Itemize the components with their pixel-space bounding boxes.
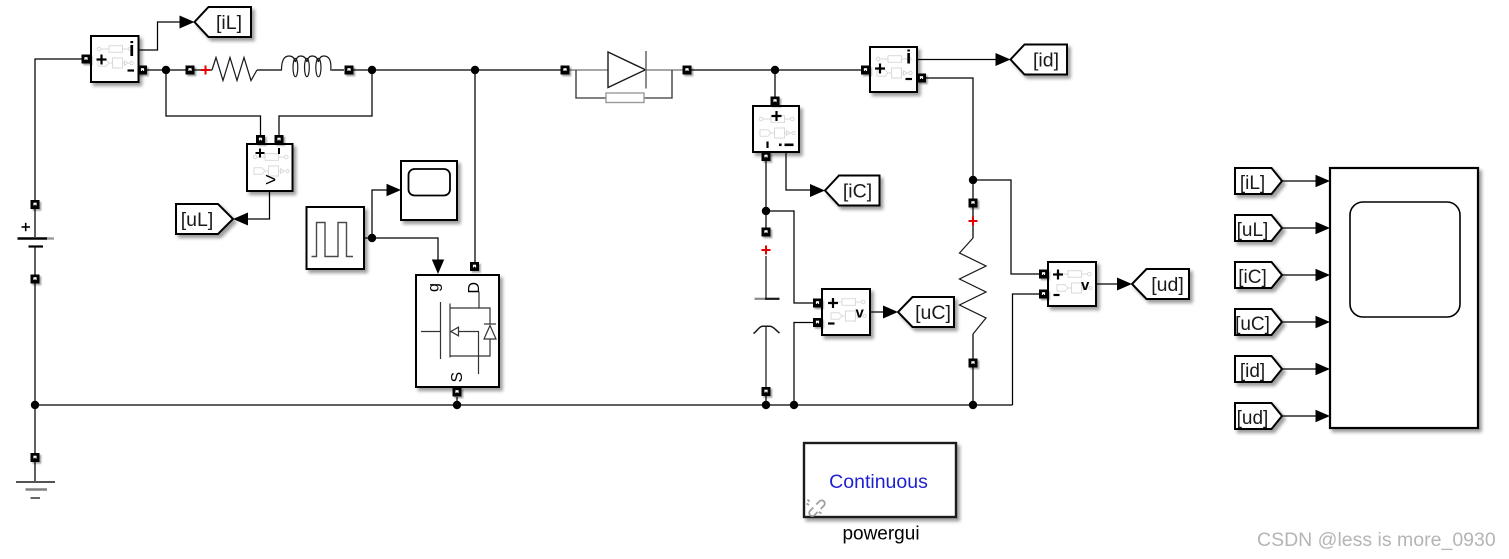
arrowhead at scope input 5 xyxy=(1316,363,1331,375)
svg-text:[id]: [id] xyxy=(1033,49,1059,71)
svg-text:[iC]: [iC] xyxy=(1238,267,1267,288)
svg-text:[uC]: [uC] xyxy=(915,302,951,324)
wire: load top node down through resistor xyxy=(972,180,974,405)
from tag [iL] xyxy=(1235,168,1282,194)
junction: RL output node xyxy=(368,66,376,74)
port: capacitor bottom xyxy=(762,387,771,396)
label: red plus at RL input xyxy=(201,66,210,75)
wire: from [id] to scope xyxy=(1282,368,1316,370)
svg-text:D: D xyxy=(466,282,483,294)
arrowhead into [id] xyxy=(996,53,1011,66)
arrowhead at scope input 1 xyxy=(1316,175,1331,187)
ground symbol xyxy=(16,457,55,498)
wire: mosfet drain to top rail xyxy=(474,70,476,262)
svg-text:[id]: [id] xyxy=(1240,361,1265,382)
arrowhead into [uC] xyxy=(883,306,898,319)
port: ammeter U5 plus xyxy=(861,66,870,75)
svg-text:[ud]: [ud] xyxy=(1151,274,1184,296)
port: voltmeter U4 minus xyxy=(813,318,822,327)
wire: load node to ud plus input xyxy=(973,180,1039,274)
voltmeter U6 voltage measurement ud xyxy=(1048,262,1096,306)
junction: mosfet drain node xyxy=(471,66,479,74)
diode D1 xyxy=(570,51,683,103)
arrowhead at scope input 3 xyxy=(1316,269,1331,281)
port: mosfet drain D xyxy=(470,262,479,271)
port: voltmeter U6 minus xyxy=(1039,290,1048,299)
svg-text:[uL]: [uL] xyxy=(181,209,214,231)
port: voltmeter U2 plus xyxy=(256,135,265,144)
svg-text:g: g xyxy=(426,283,443,292)
svg-text:[iL]: [iL] xyxy=(1240,173,1265,194)
port: ammeter U5 minus xyxy=(917,74,926,83)
wire: uC minus input down to ground rail xyxy=(794,323,814,406)
svg-text:[iC]: [iC] xyxy=(843,180,872,202)
port: diode anode xyxy=(561,66,570,75)
port: ammeter U3 minus (bottom) xyxy=(762,152,771,161)
wire: series RL top rail xyxy=(195,69,561,71)
wire: capacitor bottom to ground rail xyxy=(765,396,767,405)
arrowhead into [iC] xyxy=(810,184,825,197)
wire: from [iC] to scope xyxy=(1282,274,1316,276)
wire: diode output rail to id ammeter xyxy=(692,69,862,71)
label: red plus at load resistor xyxy=(969,217,978,226)
wire: uL tap right xyxy=(279,70,372,135)
wire: uL tap left xyxy=(166,70,261,135)
wire: uC output to [uC] goto xyxy=(870,311,884,313)
capacitor C1 (polarized) xyxy=(754,256,780,387)
svg-text:[uC]: [uC] xyxy=(1235,314,1270,335)
wire: ammeter i output to [iL] goto xyxy=(139,22,182,50)
svg-text:powergui: powergui xyxy=(842,524,919,545)
voltmeter U2 voltage measurement uL xyxy=(247,144,293,191)
goto tag [iL] xyxy=(195,7,252,37)
port: voltmeter U6 plus xyxy=(1039,270,1048,279)
arrowhead into [iL] xyxy=(180,16,195,29)
port: diode cathode xyxy=(683,66,692,75)
ammeter U3 current measurement iC xyxy=(753,106,799,152)
port: battery plus xyxy=(31,200,40,209)
goto tag [uL] xyxy=(176,204,233,234)
voltmeter U4 voltage measurement uC xyxy=(822,289,870,335)
wire: from [uL] to scope xyxy=(1282,227,1316,229)
inductor L1 xyxy=(282,56,345,77)
goto tag [uC] xyxy=(898,297,954,327)
goto tag [id] xyxy=(1011,45,1068,75)
junction: ground rail at load xyxy=(969,401,977,409)
port: capacitor top xyxy=(762,228,771,237)
svg-text:[ud]: [ud] xyxy=(1237,408,1269,429)
junction: load top node xyxy=(969,176,977,184)
svg-text:[uL]: [uL] xyxy=(1237,220,1269,241)
wire: bottom ground rail xyxy=(35,404,1013,406)
from tag [iC] xyxy=(1235,262,1282,288)
wire: id ammeter i output to [id] goto xyxy=(917,59,996,61)
DC voltage source E xyxy=(18,209,55,275)
scope block (main) xyxy=(1330,168,1478,428)
from tag [uL] xyxy=(1235,215,1282,241)
from tag [uC] xyxy=(1235,309,1282,335)
wire: id ammeter minus to load top node xyxy=(926,78,973,180)
port: ammeter U1 minus xyxy=(138,66,147,75)
junction: ground rail at mosfet source xyxy=(453,401,461,409)
snubber RC of diode D1 xyxy=(576,70,606,98)
svg-text:i: i xyxy=(129,39,135,61)
wire: from [uC] to scope xyxy=(1282,321,1316,323)
label: red plus at capacitor xyxy=(762,246,771,255)
wire: ground rail to ud minus input xyxy=(1013,294,1040,405)
port: voltmeter U4 plus xyxy=(813,299,822,308)
svg-text:CSDN @less is more_0930: CSDN @less is more_0930 xyxy=(1257,529,1496,551)
wire: capacitor node to uC plus input xyxy=(766,211,814,303)
from tag [ud] xyxy=(1235,403,1282,429)
wire: from [ud] to scope xyxy=(1282,415,1316,417)
port: RL left xyxy=(186,66,195,75)
from tag [id] xyxy=(1235,356,1282,382)
svg-text:i: i xyxy=(906,48,911,69)
port: ammeter U1 plus xyxy=(82,55,91,64)
wire: ammeter minus to node A xyxy=(147,69,186,71)
junction: ground rail at capacitor xyxy=(762,401,770,409)
port: RL right xyxy=(345,66,354,75)
resistor R2 load xyxy=(960,238,987,334)
arrowhead into [uL] xyxy=(233,213,248,226)
svg-text:v: v xyxy=(856,304,865,321)
ammeter U5 current measurement id xyxy=(870,47,917,92)
port: ground xyxy=(31,453,40,462)
port: load resistor bottom xyxy=(969,359,978,368)
port: mosfet source S xyxy=(453,388,462,397)
junction: ground rail at uC minus xyxy=(790,401,798,409)
svg-text:S: S xyxy=(449,372,466,383)
svg-text:>: > xyxy=(265,170,276,191)
arrowhead at scope input 2 xyxy=(1316,222,1331,234)
arrowhead into mosfet gate xyxy=(432,260,444,275)
mosfet Q1 block xyxy=(416,275,499,387)
scope1 block xyxy=(401,161,457,220)
wire: mosfet source to ground rail xyxy=(456,397,458,405)
arrowhead into [ud] xyxy=(1117,278,1132,291)
arrowhead at scope input 6 xyxy=(1316,410,1331,422)
svg-text:v: v xyxy=(1081,277,1090,294)
pulse generator block xyxy=(307,207,365,269)
arrowhead at scope input 4 xyxy=(1316,316,1331,328)
goto tag [iC] xyxy=(825,176,880,206)
powergui block xyxy=(804,443,956,545)
wire: battery bottom to ground xyxy=(34,284,36,454)
wire: pulse generator to gate junction and mosfet gate xyxy=(364,238,438,260)
svg-text:[iL]: [iL] xyxy=(216,12,242,34)
port: load resistor top xyxy=(969,199,978,208)
wire: iC ammeter minus down to capacitor node xyxy=(765,161,767,228)
wire: iC ammeter i output to [iC] goto xyxy=(786,152,811,190)
port: battery minus xyxy=(31,275,40,284)
goto tag [ud] xyxy=(1132,269,1189,299)
junction: gate wire node xyxy=(368,234,376,242)
svg-text:Continuous: Continuous xyxy=(829,471,928,493)
junction: ground rail at battery xyxy=(31,401,39,409)
junction: diode output node xyxy=(771,66,779,74)
wire: uL measurement output to [uL] goto xyxy=(248,191,270,219)
wire: rail down to iC ammeter xyxy=(774,70,776,97)
wire: battery top to ammeter input xyxy=(35,59,82,200)
port: voltmeter U2 minus xyxy=(275,135,284,144)
port: ammeter U3 plus (top) xyxy=(771,97,780,106)
resistor R1 (series) xyxy=(212,58,257,81)
ammeter U1 current measurement iL xyxy=(91,36,139,82)
wire: gate junction up to scope1 xyxy=(372,190,387,238)
wire: from [iL] to scope xyxy=(1282,180,1316,182)
arrowhead into scope1 xyxy=(387,184,402,196)
junction: capacitor top node xyxy=(762,207,770,215)
junction node A (after ammeter) xyxy=(162,66,170,74)
wire: ud output to [ud] goto xyxy=(1096,283,1118,285)
